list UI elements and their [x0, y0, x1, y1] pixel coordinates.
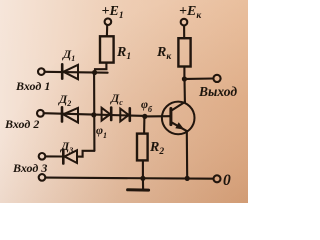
label 0: [223, 172, 231, 189]
label R2: [149, 140, 164, 157]
output terminal: [213, 75, 220, 82]
input 2 terminal: [37, 110, 44, 117]
label Dc: [110, 91, 123, 107]
node phi-b junction: [142, 114, 147, 119]
resistor R1: [100, 36, 114, 62]
wire ground rail: [46, 178, 214, 179]
wire node to output: [187, 77, 213, 80]
rail terminal left: [39, 174, 46, 181]
label Выход: [198, 84, 237, 99]
diode D1: [62, 64, 78, 79]
wire input1 row: [45, 71, 108, 74]
svg-text:0: 0: [223, 172, 231, 189]
wire D3 jog up to node: [77, 151, 94, 157]
label Вход 1: [15, 79, 50, 93]
wire phi-b node down to R2: [143, 116, 145, 133]
input 1 terminal: [38, 68, 45, 75]
diode Dc second: [120, 108, 130, 121]
node B junction: [91, 112, 96, 117]
label D1: [62, 47, 75, 63]
junction R2-rail: [140, 176, 145, 181]
wire Ek to Rk: [183, 26, 185, 39]
rail terminal right (0): [214, 175, 221, 182]
ground: [128, 178, 149, 190]
label phi1: [96, 123, 107, 140]
wire input3 row: [46, 155, 63, 157]
wire Rk to collector node: [183, 67, 185, 80]
junction emitter-rail: [185, 176, 190, 181]
label R1: [116, 45, 131, 62]
circuit schematic: 3-input DTL gate: [0, 0, 248, 203]
label D3: [60, 139, 73, 155]
terminal +Ek: [181, 19, 188, 26]
diode Dc first: [102, 108, 112, 121]
label D2: [58, 92, 71, 108]
label Вход 2: [4, 117, 39, 131]
wire emitter to rail: [186, 131, 188, 178]
transistor Q1: [162, 102, 195, 135]
input 3 terminal: [39, 153, 46, 160]
wire R2 to rail: [142, 160, 144, 178]
wire E1 to R1: [106, 25, 108, 36]
wire common vertical node A to input3 row: [93, 73, 95, 151]
wire R1 bottom jog to node A: [95, 63, 106, 73]
svg-text:Вход 2: Вход 2: [4, 117, 39, 131]
paper background: [0, 0, 248, 203]
wire node to base: [145, 115, 170, 117]
label Вход 3: [12, 161, 47, 175]
svg-text:Выход: Выход: [198, 84, 237, 99]
wire input2 row: [44, 113, 145, 116]
label +E1: [102, 4, 124, 21]
node A junction: [92, 70, 97, 75]
collector node junction: [182, 76, 187, 81]
diode D3: [63, 150, 77, 164]
resistor R2: [137, 134, 148, 161]
label +Ek: [179, 4, 202, 21]
terminal +E1: [105, 18, 112, 25]
svg-text:Вход 1: Вход 1: [15, 79, 50, 93]
label phi-b: [141, 97, 153, 114]
label Rk: [156, 45, 172, 62]
diode D2: [62, 107, 78, 122]
resistor Rk: [178, 38, 190, 66]
svg-text:Вход 3: Вход 3: [12, 161, 47, 175]
wire node to collector: [183, 79, 185, 102]
